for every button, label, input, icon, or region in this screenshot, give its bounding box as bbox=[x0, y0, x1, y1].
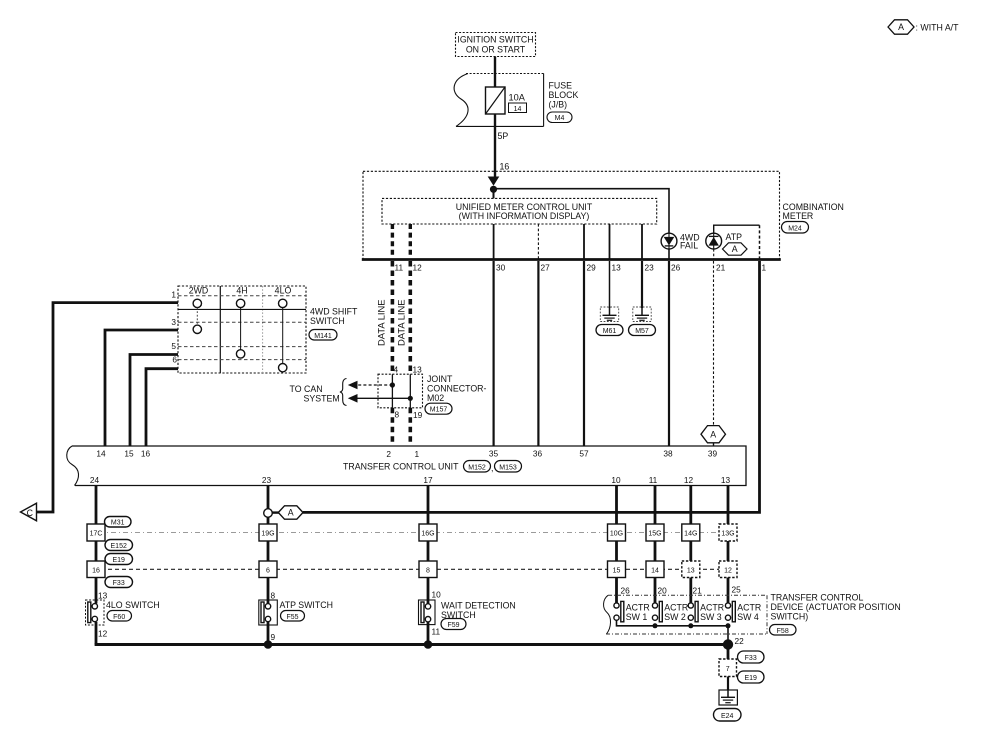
fuse 10A 14 bbox=[486, 87, 527, 114]
svg-text:15G: 15G bbox=[648, 531, 661, 538]
wire 21 to hexagon A bbox=[713, 261, 715, 426]
arrowhead into combination meter bbox=[488, 177, 500, 186]
svg-text:23: 23 bbox=[645, 263, 655, 273]
svg-text:14: 14 bbox=[514, 106, 522, 113]
oval M31 bbox=[105, 517, 132, 528]
lamp ATP bbox=[706, 232, 742, 249]
connector 6 bbox=[259, 561, 277, 578]
wire TCU 17 down bbox=[427, 486, 430, 604]
hexagon A above pin 39 bbox=[701, 426, 726, 443]
svg-text:22: 22 bbox=[735, 636, 745, 646]
svg-text:TRANSFER CONTROL UNIT: TRANSFER CONTROL UNIT bbox=[343, 462, 459, 472]
4WD shift switch M141 bbox=[171, 286, 306, 374]
svg-text:DATA LINE: DATA LINE bbox=[376, 299, 387, 346]
connector row dashed link line 2 bbox=[87, 568, 737, 570]
shift switch contacts 2WD bbox=[193, 299, 201, 333]
wire TCU 10 down bbox=[615, 486, 618, 603]
svg-text:M141: M141 bbox=[314, 333, 332, 340]
svg-text:E24: E24 bbox=[721, 713, 734, 720]
data line labels bbox=[376, 299, 407, 346]
oval E19 bbox=[105, 554, 133, 565]
svg-text:ATP SWITCH: ATP SWITCH bbox=[280, 600, 333, 610]
svg-text:E152: E152 bbox=[111, 543, 127, 550]
svg-text:A: A bbox=[710, 430, 716, 440]
svg-text:6: 6 bbox=[266, 568, 270, 575]
svg-text:CONNECTOR-: CONNECTOR- bbox=[427, 384, 487, 394]
svg-text:12: 12 bbox=[98, 629, 108, 639]
svg-text:SW 2: SW 2 bbox=[664, 612, 686, 622]
svg-text:1: 1 bbox=[415, 449, 420, 459]
svg-text:14: 14 bbox=[651, 568, 659, 575]
svg-text:M152: M152 bbox=[468, 464, 486, 471]
svg-text:ACTR: ACTR bbox=[664, 602, 688, 612]
hexagon A to meter pin 1 bbox=[278, 506, 303, 519]
svg-text:F59: F59 bbox=[447, 622, 459, 629]
wire 22 down to connector 7 bbox=[727, 645, 730, 660]
svg-text:SWITCH): SWITCH) bbox=[771, 612, 809, 622]
svg-text:METER: METER bbox=[783, 211, 814, 221]
wire fuse to combination meter, 5P 16 bbox=[495, 114, 509, 177]
svg-text:SW 1: SW 1 bbox=[626, 612, 648, 622]
svg-text:30: 30 bbox=[496, 263, 506, 273]
svg-text:E19: E19 bbox=[112, 557, 125, 564]
svg-text:ACTR: ACTR bbox=[626, 602, 650, 612]
wire TCU 11 down bbox=[654, 486, 657, 603]
svg-text:TO CAN: TO CAN bbox=[290, 384, 323, 394]
triangle arrow C bbox=[21, 503, 37, 521]
ground M61 bbox=[596, 307, 623, 336]
actuator bus junction dots bbox=[653, 623, 731, 628]
arrow to CAN 2 bbox=[348, 394, 411, 403]
svg-text:ATP: ATP bbox=[726, 232, 743, 242]
legend hexagon A : WITH A/T bbox=[888, 20, 959, 34]
ground bus wire bbox=[95, 643, 728, 646]
svg-text:M31: M31 bbox=[111, 520, 125, 527]
wire ATP top to pin 1 branch bbox=[714, 225, 760, 259]
actuator pin labels bbox=[621, 585, 742, 596]
4LO switch F60 bbox=[86, 591, 160, 639]
joint connector M02 bbox=[378, 365, 423, 421]
shift switch label M141 bbox=[309, 307, 358, 341]
TCU top pin labels bbox=[96, 449, 717, 459]
TO CAN SYSTEM label bbox=[290, 379, 347, 406]
svg-text:8: 8 bbox=[271, 591, 276, 601]
svg-text:11: 11 bbox=[649, 475, 658, 485]
svg-text:(J/B): (J/B) bbox=[549, 100, 568, 110]
shift switch contacts 4LO bbox=[279, 299, 287, 372]
svg-text:IGNITION SWITCH: IGNITION SWITCH bbox=[457, 35, 533, 45]
svg-text:21: 21 bbox=[716, 263, 726, 273]
transfer control device label F58 bbox=[770, 593, 901, 636]
wire 4WD FAIL to pin 26 bbox=[668, 249, 670, 260]
ACTR SW 1 bbox=[614, 601, 650, 622]
combination meter box M24 bbox=[362, 171, 781, 259]
wire 30 to 35 bbox=[493, 261, 495, 446]
fuse block label M4 bbox=[547, 81, 578, 123]
svg-text:10: 10 bbox=[432, 590, 442, 600]
wire 29 to 57 bbox=[583, 261, 585, 446]
actuator internal bus bbox=[617, 620, 729, 644]
wire ATP switch to bus bbox=[267, 622, 270, 645]
joint connector label M157 bbox=[425, 374, 487, 414]
arrow to CAN 1 bbox=[348, 381, 393, 390]
svg-text:39: 39 bbox=[708, 449, 718, 459]
svg-text:SW 4: SW 4 bbox=[737, 612, 759, 622]
svg-text:23: 23 bbox=[262, 475, 272, 485]
svg-text:17C: 17C bbox=[90, 531, 103, 538]
svg-text:16: 16 bbox=[500, 162, 510, 172]
svg-text:16G: 16G bbox=[421, 531, 434, 538]
svg-text:A: A bbox=[288, 508, 294, 518]
bus junction dot 22 bbox=[723, 636, 744, 650]
connector 17C bbox=[87, 524, 105, 541]
connector 16G bbox=[419, 524, 437, 541]
svg-text:13: 13 bbox=[721, 475, 731, 485]
svg-text:2: 2 bbox=[386, 449, 391, 459]
connector 15G bbox=[646, 524, 664, 541]
wire 23 to ground M57 bbox=[641, 261, 643, 308]
svg-text:E19: E19 bbox=[744, 675, 757, 682]
junction node bbox=[490, 186, 497, 193]
svg-text:20: 20 bbox=[658, 586, 668, 596]
wire shift pin 1 to arrow C bbox=[37, 303, 178, 512]
svg-text:F55: F55 bbox=[286, 614, 298, 621]
svg-text:1: 1 bbox=[171, 290, 176, 300]
svg-text:M157: M157 bbox=[430, 407, 448, 414]
svg-text:27: 27 bbox=[541, 263, 551, 273]
svg-text:13: 13 bbox=[413, 365, 423, 375]
connector 13G bbox=[719, 524, 737, 541]
svg-text:16: 16 bbox=[92, 568, 100, 575]
svg-text:A: A bbox=[898, 22, 904, 32]
svg-text:26: 26 bbox=[621, 586, 631, 596]
wire 13 to ground M61 bbox=[609, 261, 611, 308]
svg-text:2WD: 2WD bbox=[189, 286, 209, 296]
shift switch contacts 4H bbox=[236, 299, 244, 358]
svg-text:10G: 10G bbox=[610, 531, 623, 538]
svg-text:4H: 4H bbox=[236, 286, 247, 296]
transfer control unit box M152 M153 bbox=[67, 446, 746, 486]
svg-text:13: 13 bbox=[687, 568, 695, 575]
wait detection switch F59 bbox=[419, 590, 516, 637]
combination meter label M24 bbox=[782, 202, 844, 233]
svg-text:14: 14 bbox=[96, 449, 106, 459]
svg-text:ACTR: ACTR bbox=[700, 602, 724, 612]
svg-text:13: 13 bbox=[612, 263, 622, 273]
svg-text:M4: M4 bbox=[555, 115, 565, 122]
wire circle to hexagon A bbox=[272, 511, 279, 513]
wire data line to TCU pin 2 bbox=[391, 408, 395, 446]
svg-text:29: 29 bbox=[587, 263, 597, 273]
svg-text:M153: M153 bbox=[499, 464, 517, 471]
UMCU pin wires inside meter bbox=[392, 224, 642, 260]
svg-text:12: 12 bbox=[413, 263, 423, 273]
lamp 4WD FAIL bbox=[661, 233, 699, 251]
svg-text:12: 12 bbox=[684, 475, 694, 485]
svg-text:5: 5 bbox=[171, 341, 176, 351]
wire 27 to 36 bbox=[537, 261, 539, 446]
wire data line to TCU pin 1 bbox=[408, 408, 412, 446]
svg-text:5P: 5P bbox=[498, 131, 509, 141]
svg-text:4: 4 bbox=[394, 365, 399, 375]
connector 12 bbox=[719, 561, 737, 578]
svg-text:DEVICE (ACTUATOR POSITION: DEVICE (ACTUATOR POSITION bbox=[771, 602, 901, 612]
svg-text:F60: F60 bbox=[113, 614, 125, 621]
svg-text:SWITCH: SWITCH bbox=[310, 316, 345, 326]
svg-text:19: 19 bbox=[413, 410, 423, 420]
wire TCU 23 down bbox=[267, 486, 270, 604]
oval F33 bbox=[105, 577, 133, 588]
wire 11 data line bbox=[391, 261, 395, 374]
svg-text:C: C bbox=[27, 508, 34, 518]
svg-text:36: 36 bbox=[533, 449, 543, 459]
svg-text:7: 7 bbox=[726, 666, 730, 673]
svg-text:F33: F33 bbox=[113, 580, 125, 587]
svg-text:TRANSFER CONTROL: TRANSFER CONTROL bbox=[771, 593, 864, 603]
svg-text:3: 3 bbox=[171, 317, 176, 327]
svg-text:25: 25 bbox=[732, 585, 742, 595]
wire connector 7 to ground E24 bbox=[727, 677, 729, 691]
svg-text:21: 21 bbox=[693, 586, 703, 596]
wire TCU 12 down bbox=[689, 486, 692, 603]
svg-text:F33: F33 bbox=[745, 655, 757, 662]
wire 12 data line bbox=[408, 261, 412, 374]
wire shift pin 6 to TCU 16 bbox=[146, 369, 178, 446]
wire 4LO switch to bus bbox=[95, 622, 98, 645]
svg-text:14G: 14G bbox=[684, 531, 697, 538]
svg-text:8: 8 bbox=[426, 568, 430, 575]
svg-text:12: 12 bbox=[724, 568, 732, 575]
svg-text:SW 3: SW 3 bbox=[700, 612, 722, 622]
wire node into UMCU bbox=[493, 189, 495, 198]
svg-text:8: 8 bbox=[395, 410, 400, 420]
svg-text:WAIT DETECTION: WAIT DETECTION bbox=[441, 601, 516, 611]
svg-text:FUSE: FUSE bbox=[549, 81, 573, 91]
unified meter control unit box bbox=[382, 198, 657, 224]
ground M57 bbox=[629, 307, 656, 336]
svg-text:SYSTEM: SYSTEM bbox=[304, 393, 340, 403]
svg-text:ON OR START: ON OR START bbox=[466, 45, 526, 55]
svg-text:: WITH A/T: : WITH A/T bbox=[916, 23, 960, 33]
svg-text:4LO SWITCH: 4LO SWITCH bbox=[106, 600, 160, 610]
connector 8 bbox=[419, 561, 437, 578]
TCU bottom pin labels bbox=[90, 475, 731, 485]
wire WAIT switch to bus bbox=[427, 622, 430, 645]
svg-text:13G: 13G bbox=[721, 531, 734, 538]
svg-text:M02: M02 bbox=[427, 393, 444, 403]
svg-text:9: 9 bbox=[271, 632, 276, 642]
wire ignition to fuse bbox=[494, 57, 496, 88]
svg-text:JOINT: JOINT bbox=[427, 374, 453, 384]
svg-text:A: A bbox=[732, 244, 738, 254]
wire TCU 13 down bbox=[727, 486, 730, 603]
ACTR SW 2 bbox=[652, 601, 688, 622]
svg-text:15: 15 bbox=[613, 568, 621, 575]
svg-text:26: 26 bbox=[671, 263, 681, 273]
svg-text:M57: M57 bbox=[635, 328, 649, 335]
svg-text:1: 1 bbox=[762, 263, 767, 273]
svg-text:BLOCK: BLOCK bbox=[549, 90, 579, 100]
svg-text:17: 17 bbox=[423, 475, 433, 485]
ACTR SW 3 bbox=[688, 601, 724, 622]
svg-text:4WD SHIFT: 4WD SHIFT bbox=[310, 307, 358, 317]
svg-text:4LO: 4LO bbox=[275, 286, 292, 296]
bus junction dot ATP bbox=[264, 640, 273, 649]
connector 15 bbox=[608, 561, 626, 578]
svg-text:M24: M24 bbox=[788, 225, 802, 232]
connector 10G bbox=[608, 524, 626, 541]
svg-text:24: 24 bbox=[90, 475, 100, 485]
svg-text:38: 38 bbox=[663, 449, 673, 459]
connector 7 bbox=[719, 659, 737, 677]
svg-text:35: 35 bbox=[489, 449, 499, 459]
wire ATP to pin 21 bbox=[713, 249, 715, 260]
oval E152 bbox=[105, 540, 133, 551]
transfer control device dashed box bbox=[604, 595, 767, 634]
option circle node on 23 bbox=[264, 509, 273, 518]
oval E19 lower bbox=[738, 671, 765, 683]
svg-text:19G: 19G bbox=[261, 531, 274, 538]
svg-text:F58: F58 bbox=[777, 628, 789, 635]
connector 14G bbox=[682, 524, 700, 541]
wire TCU 24 down bbox=[95, 486, 98, 604]
ground E24 bbox=[714, 690, 742, 721]
svg-text:10A: 10A bbox=[509, 93, 526, 103]
svg-text:,: , bbox=[491, 463, 493, 473]
svg-text:10: 10 bbox=[611, 475, 621, 485]
ignition switch box bbox=[456, 33, 536, 57]
svg-text:15: 15 bbox=[124, 449, 134, 459]
wire hexagon to pin 39 bbox=[713, 443, 715, 446]
bus junction dot WAIT bbox=[424, 640, 433, 649]
connector row dotted link line 1 bbox=[87, 532, 737, 534]
connector 16 bbox=[87, 561, 105, 578]
ATP switch F55 bbox=[259, 591, 333, 643]
svg-text:M61: M61 bbox=[603, 328, 617, 335]
wire node to 4WD FAIL lamp bbox=[494, 189, 670, 234]
meter pin labels bbox=[395, 263, 767, 273]
wire 26 to 38 bbox=[668, 261, 670, 446]
joint connector junction dots bbox=[390, 382, 395, 387]
wire pin1 meter down bbox=[303, 261, 760, 512]
connector 14 bbox=[646, 561, 664, 578]
hexagon A under ATP bbox=[723, 243, 748, 255]
connector 13 bbox=[682, 561, 700, 578]
svg-text:16: 16 bbox=[141, 449, 151, 459]
svg-text:ACTR: ACTR bbox=[737, 602, 761, 612]
svg-text:11: 11 bbox=[432, 627, 441, 637]
ACTR SW 4 bbox=[725, 601, 761, 622]
wire shift pin 5 to TCU 15 bbox=[130, 355, 178, 447]
wire shift pin 3 to TCU 14 bbox=[105, 330, 178, 446]
svg-text:11: 11 bbox=[395, 263, 404, 273]
svg-text:DATA LINE: DATA LINE bbox=[396, 299, 407, 346]
svg-text:57: 57 bbox=[579, 449, 589, 459]
svg-text:6: 6 bbox=[172, 355, 177, 365]
svg-text:FAIL: FAIL bbox=[680, 241, 698, 251]
oval F33 lower bbox=[738, 651, 765, 663]
svg-text:(WITH INFORMATION DISPLAY): (WITH INFORMATION DISPLAY) bbox=[459, 211, 590, 221]
connector 19G bbox=[259, 524, 277, 541]
fuse block M4 box bbox=[454, 74, 544, 127]
